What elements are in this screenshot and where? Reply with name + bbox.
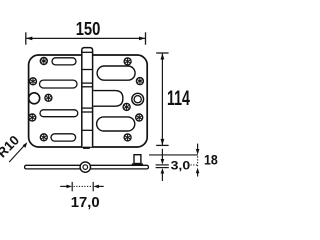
dimension 150 right arrowhead xyxy=(139,37,145,41)
left leaf screw 4 xyxy=(28,113,36,121)
hinge leaf outline (front view) xyxy=(29,55,148,147)
right leaf ring grommet outer xyxy=(132,93,144,105)
side view security stud xyxy=(134,155,141,164)
svg-text:3,0: 3,0 xyxy=(171,158,191,172)
knuckle joint line 5 xyxy=(82,111,93,113)
left leaf screw 2 xyxy=(29,77,37,85)
dimension 17,0 left tick xyxy=(71,182,73,191)
right leaf ring grommet inner xyxy=(134,96,141,103)
left leaf screw 5 xyxy=(40,133,48,141)
right leaf slot C xyxy=(97,117,135,131)
dimension 17,0 left arrowhead xyxy=(67,185,73,189)
hinge pin bottom cap xyxy=(83,147,90,149)
dimension 17,0 right line xyxy=(97,185,103,187)
left leaf screw 3 xyxy=(44,94,52,102)
right leaf screw 1 xyxy=(123,57,131,65)
dimension 114 bottom arrowhead xyxy=(161,139,165,145)
dimension 3,0 upper arrowhead xyxy=(161,159,165,165)
right leaf screw 4 xyxy=(135,113,143,121)
right leaf screw 3 xyxy=(122,103,130,111)
dimension 150 line xyxy=(26,37,145,39)
dimension 114 bottom tick xyxy=(156,144,168,146)
dimension 3,0 lower arrowhead xyxy=(161,168,165,174)
svg-text:18: 18 xyxy=(204,152,218,168)
dimension 150 left arrowhead xyxy=(26,37,32,41)
left leaf slot row2 xyxy=(40,80,78,88)
dimension 17,0 right arrowhead xyxy=(93,185,99,189)
radius R10 leader line xyxy=(9,144,25,162)
side view knuckle outer xyxy=(80,162,90,172)
left leaf slot row1 xyxy=(52,58,76,65)
barrel top cap line xyxy=(82,51,93,53)
left leaf large hole xyxy=(29,93,40,104)
knuckle joint line 2 xyxy=(82,82,93,84)
radius R10 arrowhead xyxy=(23,142,28,148)
knuckle joint line 4 xyxy=(82,107,93,109)
dimension 114 top arrowhead xyxy=(161,53,165,59)
knuckle joint line 6 xyxy=(82,129,93,131)
right leaf screw 5 xyxy=(123,133,131,141)
svg-text:114: 114 xyxy=(167,87,190,110)
dimension 18 lower arrowhead xyxy=(196,168,200,174)
dimension 3,0 dotted leader to 18 line xyxy=(191,164,198,166)
dimension 3,0 bottom tick xyxy=(156,167,169,169)
dimension 3,0 lower line xyxy=(161,173,163,181)
dimension 18 extension line from stud top xyxy=(149,154,198,156)
dimension 3,0 top tick xyxy=(156,164,169,166)
dimension 114 line xyxy=(161,54,163,145)
svg-text:150: 150 xyxy=(76,19,101,39)
knuckle joint line 1 xyxy=(82,69,93,71)
right leaf screw 2 xyxy=(136,77,144,85)
knuckle joint line 3 xyxy=(82,86,93,88)
side view knuckle inner xyxy=(83,165,88,170)
knuckle barrel xyxy=(82,48,93,147)
dimension 17,0 left line xyxy=(60,185,68,187)
dimension 150 ticks xyxy=(26,32,146,44)
dimension 3,0 upper line xyxy=(161,149,163,160)
left leaf slot row3 xyxy=(40,110,78,117)
dimension 18 upper line xyxy=(197,144,199,150)
right leaf slot A xyxy=(97,66,135,80)
side view stud base flange xyxy=(132,163,143,165)
side view plate xyxy=(25,165,149,169)
dimension 17,0 right tick xyxy=(92,182,94,191)
dimension 18 upper arrowhead xyxy=(196,149,200,155)
left leaf screw 1 xyxy=(40,57,48,65)
dimension 18 dotted span xyxy=(197,156,199,166)
dimension 18 lower line xyxy=(197,173,199,177)
left leaf slot row4 xyxy=(51,134,76,141)
dimension 17,0 dotted span xyxy=(74,185,93,187)
dimension 114 top tick xyxy=(156,52,168,54)
right leaf slot B xyxy=(93,91,123,107)
svg-text:17,0: 17,0 xyxy=(71,195,100,211)
